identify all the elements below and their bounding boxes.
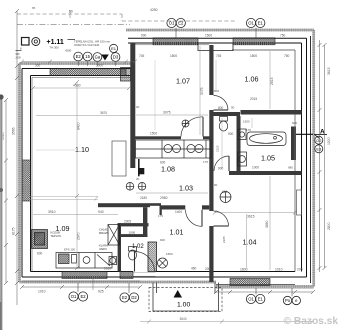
door 1.05 arc (214, 156, 229, 171)
small dim tick bottom (92, 277, 94, 290)
sink circles 1.08 (187, 145, 195, 153)
svg-text:900: 900 (228, 132, 234, 136)
svg-text:1.08: 1.08 (161, 165, 175, 174)
interior dim horizontal 1.09 (33, 214, 118, 216)
interior dim vertical 1.10 (76, 82, 78, 268)
door 1.02 entry arc (135, 252, 155, 272)
door 1.05 leaf (228, 156, 230, 171)
porch side walls (153, 283, 219, 312)
dim ticks right (318, 43, 327, 270)
insulation band top wing (126, 29, 314, 32)
dim line bottom left (22, 286, 140, 288)
marker pair top left O1 E2 (167, 18, 186, 37)
svg-text:3075: 3075 (163, 111, 171, 115)
wall face left inner (30, 76, 32, 272)
door 1.07 arc (181, 117, 203, 137)
svg-text:E2: E2 (76, 54, 82, 59)
svg-text:90: 90 (214, 183, 218, 187)
column circle b (138, 183, 146, 191)
dim line left inner (16, 11, 18, 305)
svg-text:E2: E2 (122, 295, 128, 300)
door 1.06 leaf (214, 109, 229, 111)
svg-text:85: 85 (32, 6, 36, 10)
svg-text:O1: O1 (169, 21, 175, 26)
svg-text:610: 610 (222, 190, 228, 194)
entry door threshold (133, 272, 156, 276)
svg-text:1.01: 1.01 (170, 228, 184, 237)
svg-text:2980: 2980 (160, 196, 168, 200)
svg-text:MRAZN.: MRAZN. (99, 231, 110, 235)
wall wc 1.02 top (121, 234, 147, 237)
porch bottom dim line (140, 321, 312, 323)
svg-text:600: 600 (292, 121, 297, 125)
wall face top wing inner (128, 42, 302, 44)
svg-text:O1: O1 (248, 297, 254, 302)
wall 1.09/1.10 (98, 203, 150, 207)
interior dim vertical 1.04 (269, 176, 271, 270)
svg-text:170: 170 (246, 128, 251, 132)
dim line bottom right (216, 291, 313, 293)
svg-text:E1: E1 (111, 46, 117, 51)
pier recess under top wall (198, 43, 233, 51)
kitchen counter 1.08 (136, 140, 212, 158)
wall mid vertical seg2 (209, 110, 213, 211)
svg-text:600: 600 (37, 252, 43, 256)
svg-text:925: 925 (98, 290, 104, 294)
entrance triangle porch (174, 290, 183, 298)
leader lines cluster (78, 61, 115, 66)
wall shaft top (118, 223, 149, 226)
porch dashed overhang (149, 288, 222, 312)
svg-text:800: 800 (214, 89, 219, 93)
svg-text:900: 900 (141, 34, 147, 38)
wall wc 1.02 left (118, 223, 121, 271)
svg-text:Po: Po (285, 298, 291, 303)
svg-text:J.08: J.08 (15, 56, 21, 60)
svg-text:800: 800 (218, 106, 224, 110)
wall face left outer (21, 69, 23, 278)
wall 1.07/1.08 right part (203, 136, 213, 139)
svg-text:940: 940 (98, 210, 104, 214)
svg-text:745: 745 (139, 54, 145, 58)
svg-text:3000: 3000 (96, 64, 103, 68)
svg-text:1800: 1800 (166, 252, 173, 256)
svg-text:1500: 1500 (205, 34, 212, 38)
interior dim horizontal 1.03 (136, 192, 208, 194)
dim line above left wing (22, 61, 135, 63)
inner face left wing (32, 78, 130, 272)
svg-text:E2: E2 (80, 294, 86, 299)
svg-text:D2: D2 (131, 295, 137, 300)
svg-text:50: 50 (69, 10, 73, 14)
svg-text:E3: E3 (316, 146, 322, 151)
svg-text:3640: 3640 (180, 317, 187, 321)
door 1.02 entry leaf (134, 252, 136, 272)
marker pair bottom E2 D2 (120, 283, 139, 302)
wall spine (1.10 / middle) (130, 43, 135, 168)
svg-text:O1: O1 (71, 294, 77, 299)
svg-text:4500: 4500 (73, 84, 81, 88)
roof dashed line top (17, 14, 237, 21)
svg-text:KOZUB: KOZUB (51, 231, 60, 235)
svg-text:900: 900 (218, 167, 224, 171)
svg-text:3860: 3860 (265, 220, 269, 228)
bottom sill line right wing (216, 284, 295, 286)
chimney protrusion left wing (121, 68, 131, 82)
svg-text:750: 750 (280, 34, 286, 38)
svg-text:© Bazos.sk: © Bazos.sk (284, 316, 339, 327)
scan blob (0, 94, 4, 99)
svg-text:TH 300: TH 300 (50, 46, 60, 50)
svg-text:600: 600 (196, 147, 201, 151)
interior dim horizontal 1.04 (215, 212, 295, 214)
wall mid vertical seg3 (209, 226, 213, 282)
svg-text:460: 460 (191, 267, 197, 271)
svg-text:2615: 2615 (270, 77, 274, 85)
drain symbol 1.03 (220, 192, 231, 203)
interior dim vertical 1.04b (246, 214, 248, 268)
wall mid vertical seg1 (209, 45, 213, 95)
svg-text:90: 90 (231, 106, 235, 110)
wall 1.05/1.04 (229, 171, 302, 175)
svg-text:3615: 3615 (327, 67, 331, 75)
svg-text:E2: E2 (178, 21, 184, 26)
interior dim vertical 1.06 (269, 51, 271, 109)
svg-text:VARIC: VARIC (99, 247, 107, 251)
svg-text:4250: 4250 (150, 8, 158, 12)
svg-text:E1: E1 (258, 297, 264, 302)
wall 1.09/1.10 extension (150, 203, 161, 206)
wall shaft right (143, 207, 147, 237)
insulation band right wall (312, 30, 315, 287)
svg-text:15: 15 (85, 54, 90, 59)
svg-text:1500: 1500 (150, 132, 157, 136)
svg-text:1.05: 1.05 (261, 154, 275, 163)
insulation band left wing top (20, 62, 136, 65)
svg-text:1.07: 1.07 (176, 77, 190, 86)
svg-text:20: 20 (136, 105, 140, 109)
legend double circle (32, 38, 40, 46)
wall face bottom inner left (31, 271, 134, 273)
window top W2 (233, 38, 275, 45)
washbasin 1.05 (238, 152, 247, 166)
svg-text:1800: 1800 (250, 54, 257, 58)
section marker A right (296, 133, 313, 135)
svg-text:200: 200 (205, 267, 211, 271)
wall face right inner (301, 43, 303, 272)
svg-text:2970: 2970 (77, 232, 81, 240)
window left wing top (50, 69, 126, 76)
svg-text:1010: 1010 (275, 268, 283, 272)
svg-text:3670: 3670 (100, 111, 107, 115)
window bottom W2 (120, 272, 133, 279)
window bottom right wing (230, 279, 270, 286)
wall top of 1.01 left (160, 205, 186, 209)
wall 1.06/1.05 (241, 110, 302, 115)
entrance triangle top (101, 55, 109, 61)
interior dim pair above 1.09 (22, 197, 98, 200)
dim line left outer (5, 100, 7, 283)
section dashdot line top (17, 24, 130, 26)
interior dim horizontal mid (136, 114, 208, 116)
marker pair top right O1 E1 (246, 18, 265, 37)
svg-text:8400: 8400 (77, 122, 81, 130)
wall face top wing outer (128, 37, 307, 39)
svg-text:1.03: 1.03 (179, 184, 193, 193)
svg-text:3565: 3565 (12, 127, 16, 135)
svg-text:3910: 3910 (48, 210, 56, 214)
svg-text:300: 300 (35, 64, 41, 68)
svg-text:3615: 3615 (247, 215, 255, 219)
interior dim vertical 1.07 (199, 46, 201, 135)
svg-text:2180: 2180 (140, 196, 147, 200)
wall face left wing top outer (22, 68, 135, 70)
marker circles right O2 E3 (315, 136, 323, 153)
marker pair bottom right O1 E1 (246, 288, 265, 304)
duct shaft 1.05 (291, 127, 296, 161)
dim line right b (324, 45, 326, 268)
window bottom W1 (62, 272, 107, 279)
svg-text:8175: 8175 (12, 227, 16, 235)
svg-text:D3: D3 (113, 55, 119, 60)
svg-text:1000: 1000 (252, 166, 259, 170)
kitchen counter 1.09 (56, 253, 112, 269)
scan edge line (0, 95, 2, 330)
svg-text:200: 200 (297, 268, 303, 272)
stove 1.09 (32, 230, 48, 249)
scan blob mid (0, 188, 3, 192)
door jamb 1.10 (138, 159, 140, 176)
svg-text:900: 900 (160, 238, 165, 242)
marker cluster left E2 15 Ga D3 E1 (74, 44, 120, 61)
wardrobe 1.10 (112, 141, 126, 176)
svg-text:1800: 1800 (170, 54, 177, 58)
bathtub 1.05 (247, 132, 286, 146)
legend square (22, 38, 30, 46)
svg-text:750: 750 (284, 54, 290, 58)
svg-text:2305: 2305 (222, 236, 226, 243)
svg-text:745: 745 (216, 54, 222, 58)
svg-text:1500: 1500 (243, 120, 250, 124)
svg-text:2800: 2800 (327, 222, 331, 230)
interior dim horizontal 1.10 (33, 87, 129, 89)
radiator right (297, 190, 302, 215)
svg-text:Ga: Ga (95, 55, 101, 60)
column block (138, 168, 144, 174)
svg-text:600: 600 (160, 161, 166, 165)
door 1.07 leaf (202, 117, 204, 137)
right wall third line (310, 36, 312, 283)
fridge 1.09 (108, 225, 120, 246)
svg-text:980: 980 (288, 166, 293, 170)
svg-text:EPS 100: EPS 100 (64, 248, 75, 252)
svg-text:1.02: 1.02 (132, 244, 144, 250)
door 1.06 arc (214, 96, 229, 111)
svg-text:TEPLOV.: TEPLOV. (51, 234, 62, 238)
toilet 1.02 (129, 250, 137, 260)
door 1.04 leaf (214, 225, 229, 227)
insulation band left wall (18, 64, 21, 283)
marker pair bottom O1 E2 (69, 283, 88, 301)
svg-text:2305: 2305 (124, 220, 131, 224)
column circle a (126, 183, 134, 191)
bottom right outer step line (216, 288, 314, 290)
svg-text:1000: 1000 (129, 230, 136, 234)
svg-text:4200: 4200 (65, 49, 72, 53)
tiny symbols (16, 51, 22, 55)
svg-text:1800: 1800 (240, 268, 248, 272)
toilet 1.05 (238, 129, 246, 140)
svg-text:1010: 1010 (104, 267, 111, 271)
wall wc right (237, 116, 241, 171)
dim line right a (319, 40, 321, 272)
door 1.01 arc (186, 210, 203, 227)
svg-text:2110: 2110 (216, 145, 220, 152)
svg-text:3075: 3075 (200, 87, 204, 95)
svg-text:20: 20 (136, 177, 140, 181)
svg-text:1.06: 1.06 (245, 75, 259, 84)
svg-text:1500: 1500 (327, 137, 331, 145)
chimney block (148, 242, 157, 272)
insulation texture overlay (20, 30, 314, 287)
svg-text:1010: 1010 (38, 290, 46, 294)
svg-text:175: 175 (158, 214, 163, 218)
bottom sill line left (22, 280, 140, 282)
svg-text:1.00: 1.00 (177, 302, 190, 309)
marker pair bottom right small (283, 288, 300, 305)
fan symbol 1.01 (158, 258, 168, 268)
svg-text:1400: 1400 (175, 210, 182, 214)
drain symbol 1.07 (182, 120, 189, 127)
inner face room 1.06 (232, 50, 295, 272)
interior dim horizontal 1.10b (36, 115, 130, 117)
svg-text:175: 175 (203, 160, 208, 164)
inner face 1.07 (135, 44, 209, 46)
door 1.04 arc (214, 211, 229, 226)
svg-text:OMIETKA VAP.CEM.: OMIETKA VAP.CEM. (74, 43, 100, 47)
window top W1 (153, 38, 198, 45)
washing machine 1.02 (109, 257, 117, 265)
hob circles (164, 145, 172, 153)
window left wall (22, 160, 31, 201)
dim ticks left (4, 9, 19, 285)
toilet wc mid (219, 121, 227, 131)
door 1.01 leaf (201, 210, 203, 227)
extra faint dims middle (221, 118, 223, 168)
svg-text:E1: E1 (258, 21, 264, 26)
wall face bottom inner right (156, 271, 296, 273)
insulation band bottom wall (20, 282, 314, 287)
wall face right outer (306, 38, 308, 277)
svg-text:1.04: 1.04 (243, 238, 257, 247)
svg-text:O2: O2 (316, 138, 322, 143)
wall hook (160, 206, 162, 215)
svg-text:O1: O1 (248, 21, 254, 26)
wall 1.07/1.08 left part (135, 136, 181, 139)
wall wc top (214, 112, 241, 116)
wall face bottom outer (22, 276, 307, 278)
wall top of 1.01 right (202, 205, 209, 209)
porch edge (153, 310, 219, 312)
wall face left wing top inner (31, 75, 136, 77)
svg-text:2015: 2015 (250, 97, 257, 101)
